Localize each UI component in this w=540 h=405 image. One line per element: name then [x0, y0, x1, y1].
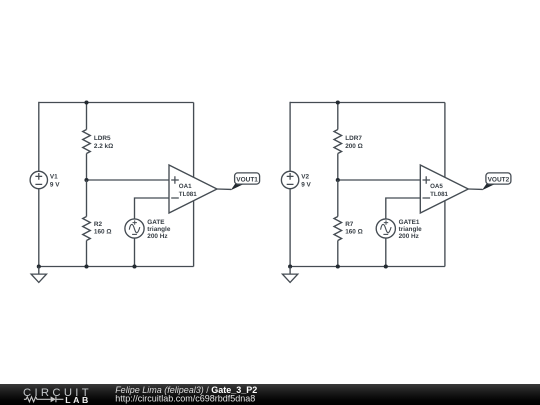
wire op-amp power supply column [444, 103, 446, 267]
wire GATE to bottom rail [134, 238, 136, 266]
svg-text:triangle: triangle [399, 226, 423, 233]
wire inverting input to triangle source [386, 198, 421, 219]
svg-text:9 V: 9 V [301, 181, 311, 188]
svg-text:VOUT2: VOUT2 [488, 176, 510, 183]
wire op-amp output [217, 188, 231, 190]
svg-text:LDR5: LDR5 [94, 135, 111, 142]
resistor R2 [83, 180, 91, 267]
wire op-amp power supply column [193, 103, 195, 267]
photoresistor LDR7 [334, 103, 342, 181]
op-amp OA1 [169, 165, 217, 213]
wire top rail (V1 circuit) [39, 102, 194, 104]
triangle-wave source GATE1 [376, 219, 395, 238]
svg-text:V1: V1 [50, 174, 58, 181]
svg-text:GATE: GATE [147, 219, 165, 226]
wire top rail (V2 circuit) [290, 102, 445, 104]
node dot bottom rail / GATE junction [132, 264, 136, 268]
node dot top rail / LDR5 junction [84, 100, 88, 104]
node dot bottom rail / R7 junction [336, 264, 340, 268]
svg-text:200 Ω: 200 Ω [345, 143, 363, 150]
svg-text:2.2 kΩ: 2.2 kΩ [94, 143, 113, 150]
wire GATE1 to bottom rail [385, 238, 387, 266]
node dot bottom rail / GATE1 junction [384, 264, 388, 268]
voltage source V1 [30, 171, 47, 188]
svg-text:V2: V2 [301, 174, 309, 181]
wire left branch lower [38, 189, 40, 267]
svg-text:TL081: TL081 [179, 191, 197, 198]
node dot bottom rail / ground junction [288, 264, 292, 268]
svg-text:LAB: LAB [65, 395, 91, 405]
node dot bottom rail / R2 junction [84, 264, 88, 268]
ground [31, 267, 46, 283]
svg-text:OA1: OA1 [179, 183, 192, 190]
CircuitLab logo resistor-diode icon [24, 397, 51, 402]
wire middle rail to op-amp noninverting input [87, 179, 170, 181]
wire left branch upper [289, 102, 291, 172]
node dot middle rail junction [84, 178, 88, 182]
wire left branch lower [289, 189, 291, 267]
wire bottom rail [39, 266, 194, 268]
node dot bottom rail / ground junction [37, 264, 41, 268]
node dot middle rail junction [336, 178, 340, 182]
wire inverting input to triangle source [135, 198, 170, 219]
wire middle rail to op-amp noninverting input [338, 179, 421, 181]
node dot top rail / LDR7 junction [336, 100, 340, 104]
svg-text:9 V: 9 V [50, 181, 60, 188]
triangle-wave source GATE [125, 219, 144, 238]
wire op-amp output [468, 188, 482, 190]
wire bottom rail [290, 266, 445, 268]
photoresistor LDR5 [83, 103, 91, 181]
svg-text:200 Hz: 200 Hz [399, 233, 419, 240]
output flag VOUT2 [482, 173, 511, 190]
svg-text:160 Ω: 160 Ω [345, 229, 363, 236]
svg-text:VOUT1: VOUT1 [236, 176, 258, 183]
svg-text:160 Ω: 160 Ω [94, 229, 112, 236]
voltage source V2 [281, 171, 298, 188]
svg-text:OA5: OA5 [430, 183, 443, 190]
svg-text:LDR7: LDR7 [345, 135, 362, 142]
resistor R7 [334, 180, 342, 267]
wire left branch upper [38, 102, 40, 172]
svg-text:R7: R7 [345, 221, 354, 228]
op-amp OA5 [420, 165, 468, 213]
ground [282, 267, 297, 283]
svg-text:200 Hz: 200 Hz [147, 233, 167, 240]
svg-text:TL081: TL081 [430, 191, 448, 198]
output flag VOUT1 [231, 173, 260, 190]
svg-text:R2: R2 [94, 221, 103, 228]
svg-text:triangle: triangle [147, 226, 171, 233]
svg-text:http://circuitlab.com/c698rbdf: http://circuitlab.com/c698rbdf5dna8 [115, 393, 255, 403]
svg-text:GATE1: GATE1 [399, 219, 420, 226]
